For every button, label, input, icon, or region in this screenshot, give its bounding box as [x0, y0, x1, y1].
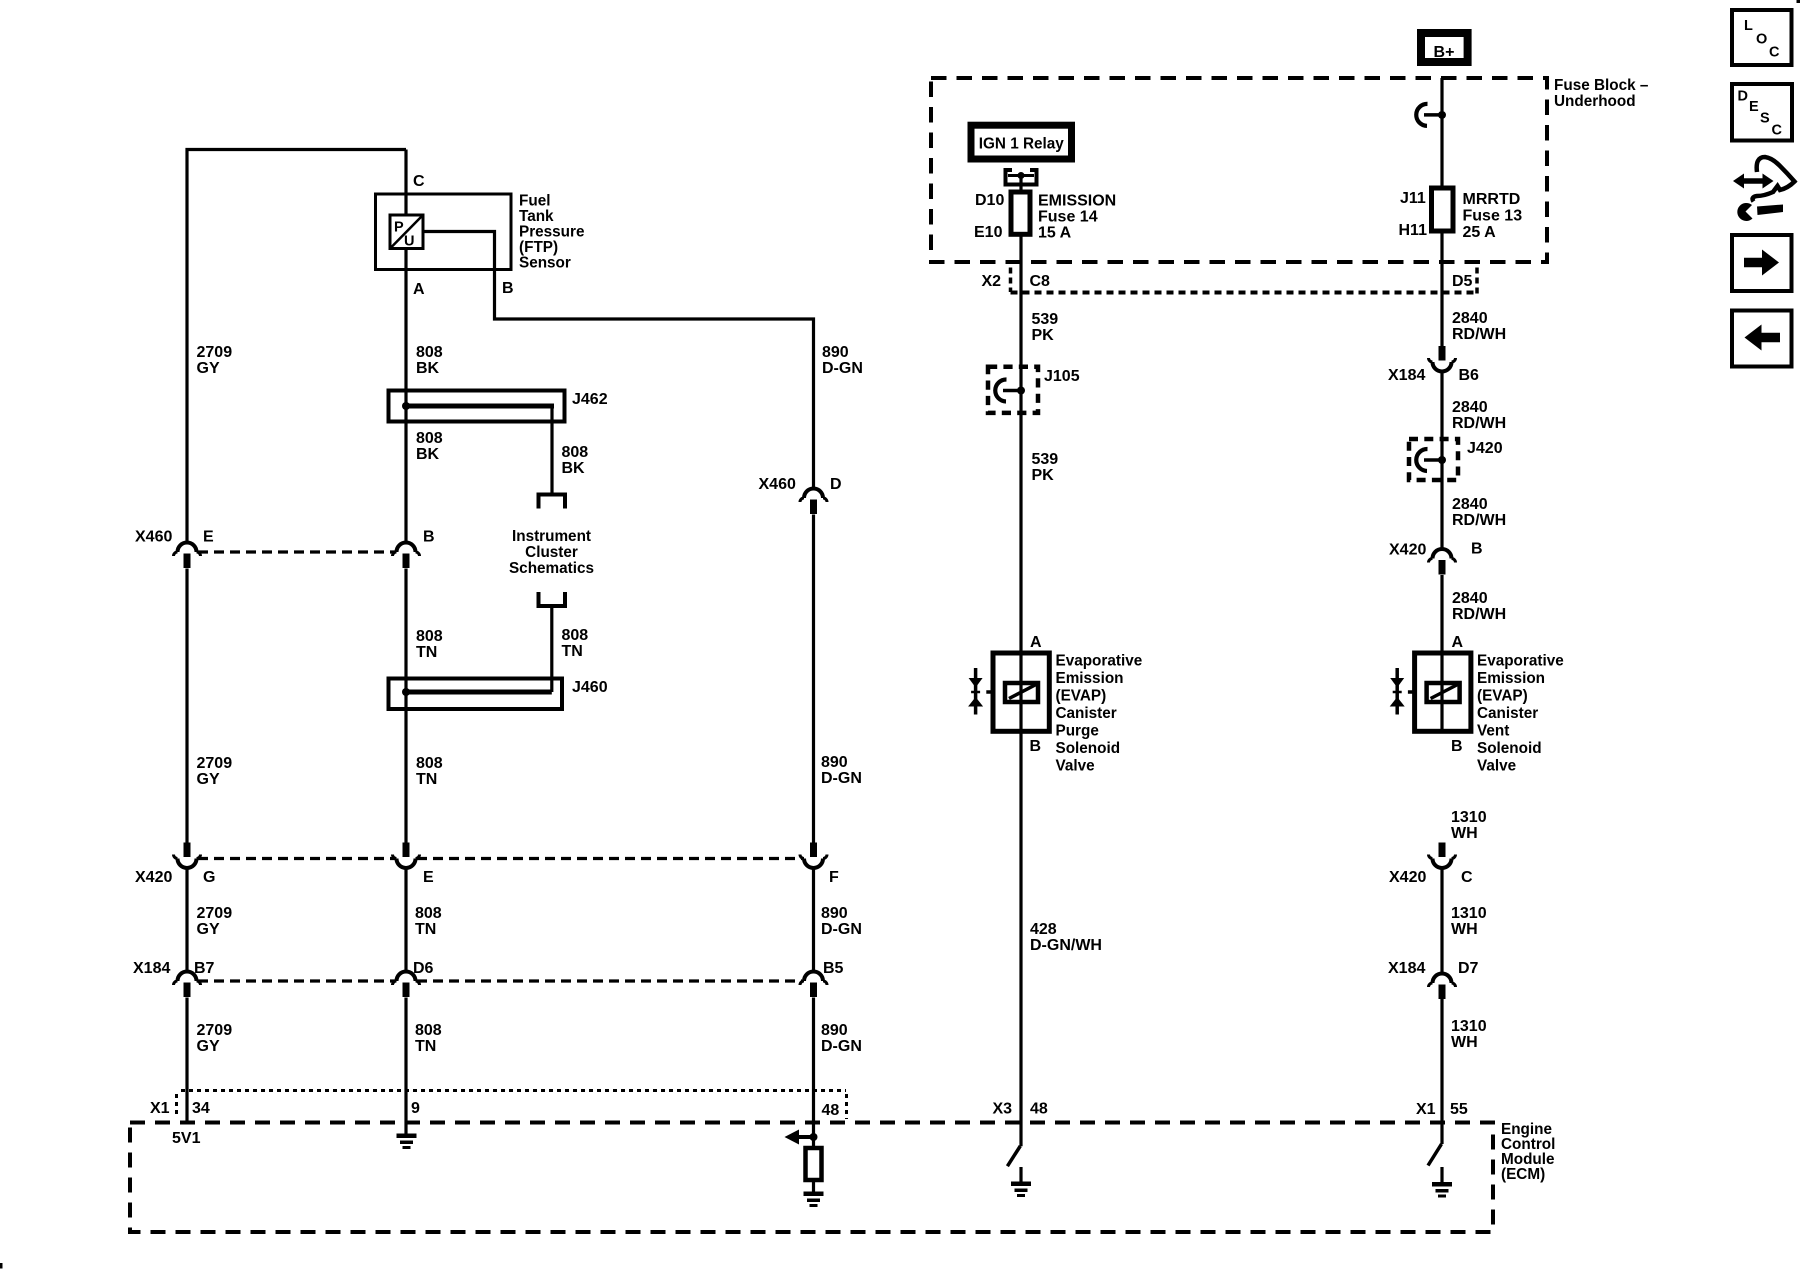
svg-text:Fuse 13: Fuse 13 — [1463, 208, 1523, 225]
svg-text:1310: 1310 — [1451, 905, 1487, 922]
svg-text:J462: J462 — [572, 391, 608, 408]
svg-text:D7: D7 — [1458, 960, 1479, 977]
svg-text:L: L — [1744, 18, 1753, 34]
svg-text:D-GN/WH: D-GN/WH — [1030, 937, 1102, 954]
svg-text:B5: B5 — [823, 960, 844, 977]
svg-text:Instrument: Instrument — [512, 528, 591, 545]
svg-text:PK: PK — [1032, 327, 1055, 344]
svg-text:WH: WH — [1451, 825, 1478, 842]
svg-text:GY: GY — [197, 360, 220, 377]
svg-text:F: F — [829, 869, 839, 886]
svg-text:B: B — [423, 529, 435, 546]
svg-text:X184: X184 — [1388, 367, 1425, 384]
svg-text:Evaporative: Evaporative — [1056, 653, 1143, 670]
svg-text:(EVAP): (EVAP) — [1477, 688, 1528, 705]
svg-text:J420: J420 — [1467, 440, 1503, 457]
svg-text:2709: 2709 — [197, 905, 233, 922]
svg-text:PK: PK — [1032, 467, 1055, 484]
svg-text:808: 808 — [415, 1022, 442, 1039]
svg-text:25 A: 25 A — [1463, 224, 1497, 241]
svg-text:J460: J460 — [572, 679, 608, 696]
svg-text:B7: B7 — [194, 960, 215, 977]
svg-text:X2: X2 — [982, 273, 1002, 290]
svg-text:E10: E10 — [974, 224, 1003, 241]
svg-text:X460: X460 — [759, 476, 796, 493]
svg-text:2840: 2840 — [1452, 496, 1488, 513]
svg-text:A: A — [413, 281, 425, 298]
svg-text:D: D — [830, 476, 842, 493]
svg-text:B: B — [1471, 541, 1483, 558]
svg-text:C8: C8 — [1030, 273, 1051, 290]
svg-text:(EVAP): (EVAP) — [1056, 688, 1107, 705]
svg-text:RD/WH: RD/WH — [1452, 415, 1506, 432]
svg-text:D-GN: D-GN — [821, 921, 862, 938]
svg-text:Solenoid: Solenoid — [1477, 740, 1542, 757]
svg-text:J105: J105 — [1044, 368, 1080, 385]
svg-text:D: D — [1738, 89, 1748, 105]
svg-text:Sensor: Sensor — [519, 255, 571, 272]
svg-text:808: 808 — [416, 430, 443, 447]
svg-text:Valve: Valve — [1477, 758, 1516, 775]
svg-text:TN: TN — [415, 921, 436, 938]
svg-text:2709: 2709 — [197, 755, 233, 772]
svg-text:15 A: 15 A — [1038, 225, 1072, 242]
svg-text:808: 808 — [562, 444, 589, 461]
svg-text:A: A — [1452, 634, 1464, 651]
svg-text:2840: 2840 — [1452, 590, 1488, 607]
svg-text:890: 890 — [821, 1022, 848, 1039]
svg-text:BK: BK — [416, 360, 440, 377]
svg-text:890: 890 — [822, 344, 849, 361]
svg-text:X1: X1 — [1416, 1101, 1436, 1118]
svg-text:RD/WH: RD/WH — [1452, 326, 1506, 343]
svg-text:B: B — [1451, 738, 1463, 755]
svg-text:MRRTD: MRRTD — [1463, 191, 1521, 208]
svg-text:GY: GY — [197, 1038, 220, 1055]
svg-text:B6: B6 — [1459, 367, 1480, 384]
svg-text:B+: B+ — [1434, 44, 1455, 61]
svg-text:WH: WH — [1451, 921, 1478, 938]
svg-text:808: 808 — [415, 905, 442, 922]
svg-text:Emission: Emission — [1056, 670, 1124, 687]
svg-text:X3: X3 — [993, 1101, 1013, 1118]
svg-text:539: 539 — [1032, 311, 1059, 328]
svg-text:48: 48 — [822, 1102, 840, 1119]
svg-text:Emission: Emission — [1477, 670, 1545, 687]
svg-text:C: C — [413, 173, 425, 190]
svg-text:GY: GY — [197, 921, 220, 938]
svg-text:Valve: Valve — [1056, 758, 1095, 775]
svg-text:WH: WH — [1451, 1034, 1478, 1051]
svg-text:X460: X460 — [135, 529, 172, 546]
svg-text:X184: X184 — [1388, 960, 1425, 977]
svg-text:Fuel: Fuel — [519, 193, 550, 210]
svg-text:890: 890 — [821, 905, 848, 922]
svg-text:E: E — [1749, 99, 1759, 115]
svg-text:Cluster: Cluster — [525, 544, 578, 561]
svg-text:U: U — [404, 234, 414, 250]
svg-text:B: B — [1030, 738, 1042, 755]
svg-text:Solenoid: Solenoid — [1056, 740, 1121, 757]
svg-text:C: C — [1461, 869, 1473, 886]
svg-text:Schematics: Schematics — [509, 560, 594, 577]
svg-text:Canister: Canister — [1056, 705, 1117, 722]
svg-text:EMISSION: EMISSION — [1038, 193, 1116, 210]
svg-text:808: 808 — [562, 627, 589, 644]
svg-text:Evaporative: Evaporative — [1477, 653, 1564, 670]
svg-text:808: 808 — [416, 344, 443, 361]
svg-text:890: 890 — [821, 754, 848, 771]
svg-text:D10: D10 — [975, 192, 1004, 209]
svg-text:X420: X420 — [135, 869, 172, 886]
svg-text:RD/WH: RD/WH — [1452, 606, 1506, 623]
svg-text:D5: D5 — [1452, 273, 1473, 290]
svg-text:D6: D6 — [413, 960, 434, 977]
svg-text:BK: BK — [416, 446, 440, 463]
svg-text:Purge: Purge — [1056, 723, 1099, 740]
svg-text:D-GN: D-GN — [821, 1038, 862, 1055]
svg-text:BK: BK — [562, 460, 586, 477]
svg-text:34: 34 — [192, 1100, 210, 1117]
svg-text:B: B — [502, 280, 514, 297]
svg-text:D-GN: D-GN — [821, 770, 862, 787]
svg-text:P: P — [394, 220, 404, 236]
svg-text:GY: GY — [197, 771, 220, 788]
svg-text:E: E — [423, 869, 434, 886]
svg-text:IGN 1 Relay: IGN 1 Relay — [979, 136, 1065, 153]
svg-text:G: G — [203, 869, 215, 886]
svg-text:E: E — [203, 529, 214, 546]
svg-text:RD/WH: RD/WH — [1452, 512, 1506, 529]
svg-text:H11: H11 — [1399, 222, 1428, 239]
svg-text:Fuse Block –: Fuse Block – — [1554, 77, 1649, 94]
svg-text:808: 808 — [416, 755, 443, 772]
svg-text:1310: 1310 — [1451, 809, 1487, 826]
svg-text:5V1: 5V1 — [172, 1130, 201, 1147]
svg-text:1310: 1310 — [1451, 1018, 1487, 1035]
svg-text:2709: 2709 — [197, 1022, 233, 1039]
svg-text:Vent: Vent — [1477, 723, 1509, 740]
svg-text:D-GN: D-GN — [822, 360, 863, 377]
svg-text:2840: 2840 — [1452, 310, 1488, 327]
svg-text:9: 9 — [411, 1100, 420, 1117]
svg-text:808: 808 — [416, 628, 443, 645]
svg-text:TN: TN — [562, 643, 583, 660]
svg-text:Pressure: Pressure — [519, 224, 584, 241]
svg-text:X420: X420 — [1389, 869, 1426, 886]
svg-text:C: C — [1772, 123, 1783, 139]
svg-text:A: A — [1030, 634, 1042, 651]
svg-text:C: C — [1769, 45, 1780, 61]
svg-text:TN: TN — [416, 771, 437, 788]
svg-text:2840: 2840 — [1452, 399, 1488, 416]
svg-text:TN: TN — [416, 644, 437, 661]
svg-text:428: 428 — [1030, 921, 1057, 938]
svg-text:O: O — [1756, 32, 1767, 48]
svg-text:TN: TN — [415, 1038, 436, 1055]
svg-text:S: S — [1760, 111, 1770, 127]
svg-text:Canister: Canister — [1477, 705, 1538, 722]
svg-text:55: 55 — [1450, 1101, 1468, 1118]
svg-text:X420: X420 — [1389, 542, 1426, 559]
svg-text:Underhood: Underhood — [1554, 93, 1636, 110]
svg-text:(FTP): (FTP) — [519, 239, 558, 256]
svg-text:2709: 2709 — [197, 344, 233, 361]
svg-text:J11: J11 — [1400, 190, 1426, 207]
svg-text:X184: X184 — [133, 960, 170, 977]
svg-text:Fuse 14: Fuse 14 — [1038, 209, 1098, 226]
svg-text:Tank: Tank — [519, 208, 554, 225]
svg-text:(ECM): (ECM) — [1501, 1166, 1545, 1183]
svg-text:X1: X1 — [150, 1100, 170, 1117]
svg-text:539: 539 — [1032, 451, 1059, 468]
svg-text:48: 48 — [1030, 1101, 1048, 1118]
